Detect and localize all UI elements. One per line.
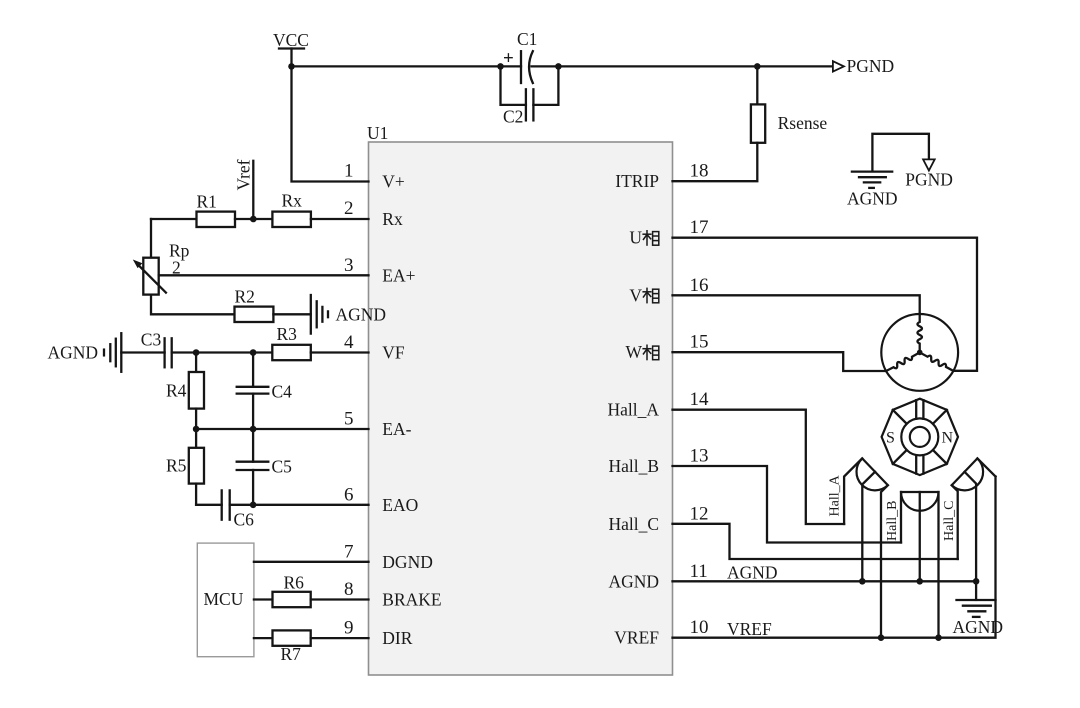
- svg-text:AGND: AGND: [847, 189, 898, 209]
- ground AGND bottom right: [953, 581, 1004, 637]
- svg-text:9: 9: [344, 618, 354, 639]
- wire R5 to C6: [196, 504, 222, 506]
- wire R2 to ground: [273, 313, 310, 315]
- wire Rp bottom to R2: [151, 295, 235, 315]
- svg-text:DGND: DGND: [382, 552, 433, 572]
- wire Rsense to pin 18 ITRIP: [673, 143, 758, 181]
- wire top rail VCC to C1: [292, 65, 522, 67]
- svg-text:PGND: PGND: [905, 170, 953, 190]
- svg-text:R1: R1: [197, 192, 217, 212]
- hall sensor Hall_A: [828, 458, 888, 637]
- capacitor C2: [503, 89, 533, 126]
- ground AGND-PGND tie: [847, 134, 953, 209]
- svg-text:10: 10: [690, 617, 709, 638]
- resistor R6: [273, 573, 311, 608]
- node Hall_A vref junction: [878, 634, 885, 641]
- node R4 bottom junction: [193, 426, 200, 433]
- svg-text:R6: R6: [284, 573, 305, 593]
- wire pin 13 Hall_B signal: [673, 466, 902, 543]
- resistor R7: [273, 630, 311, 664]
- svg-text:S: S: [886, 430, 895, 447]
- wire pin 5 EA-: [196, 428, 368, 430]
- wire pin 7 DGND: [254, 561, 369, 563]
- svg-text:MCU: MCU: [204, 589, 244, 609]
- svg-text:AGND: AGND: [336, 305, 387, 325]
- svg-text:15: 15: [690, 332, 709, 353]
- ground AGND at R2: [311, 295, 386, 334]
- svg-text:R3: R3: [277, 324, 298, 344]
- svg-text:AGND: AGND: [727, 563, 778, 583]
- svg-text:AGND: AGND: [953, 617, 1004, 637]
- svg-text:12: 12: [690, 503, 709, 524]
- wire R7 to pin 9 DIR: [311, 637, 369, 639]
- svg-text:Rx: Rx: [282, 191, 303, 211]
- node Hall_A gnd junction: [859, 578, 866, 585]
- wire Rx to pin 2: [311, 218, 369, 220]
- svg-text:Vref: Vref: [234, 159, 254, 190]
- svg-text:C2: C2: [503, 107, 523, 127]
- svg-text:EAO: EAO: [382, 495, 418, 515]
- node VCC junction: [288, 63, 295, 70]
- svg-text:W: W: [625, 342, 642, 362]
- wire C2 branch left: [501, 66, 526, 105]
- svg-text:+: +: [503, 48, 514, 69]
- svg-text:Hall_A: Hall_A: [828, 474, 843, 516]
- svg-text:18: 18: [690, 161, 709, 182]
- wire C6 to pin 6 EAO: [230, 504, 369, 506]
- svg-text:C1: C1: [517, 29, 537, 49]
- power flag VCC: [273, 30, 309, 66]
- wire pin 10 VREF bus: [673, 477, 996, 638]
- svg-text:U1: U1: [367, 123, 388, 143]
- resistor R5: [166, 429, 204, 505]
- svg-text:V: V: [629, 285, 642, 305]
- node Vref junction: [250, 216, 257, 223]
- svg-text:1: 1: [344, 161, 354, 182]
- potentiometer Rp: [133, 241, 190, 295]
- svg-text:R4: R4: [166, 381, 187, 401]
- node C1 left junction: [497, 63, 504, 70]
- svg-text:VREF: VREF: [727, 619, 772, 639]
- node C5 bottom junction: [250, 502, 257, 509]
- pin label U-phase: [629, 228, 658, 248]
- wire ground to C3: [121, 351, 164, 353]
- capacitor C6: [222, 490, 254, 529]
- svg-text:U: U: [629, 228, 642, 248]
- hall sensor Hall_C: [942, 458, 996, 581]
- svg-text:Rsense: Rsense: [778, 113, 828, 133]
- wire C3 to R3: [172, 351, 273, 353]
- wire R1 to Rx: [235, 218, 272, 220]
- svg-text:PGND: PGND: [847, 56, 895, 76]
- svg-text:7: 7: [344, 541, 354, 562]
- svg-text:Hall_C: Hall_C: [608, 514, 659, 534]
- svg-text:AGND: AGND: [48, 343, 99, 363]
- ground AGND at C3: [48, 333, 122, 372]
- svg-text:5: 5: [344, 409, 354, 430]
- svg-text:Hall_B: Hall_B: [608, 456, 659, 476]
- svg-text:13: 13: [690, 446, 709, 467]
- svg-text:R7: R7: [281, 644, 302, 664]
- svg-text:6: 6: [344, 484, 354, 505]
- svg-text:BRAKE: BRAKE: [382, 590, 441, 610]
- svg-text:Hall_A: Hall_A: [607, 400, 659, 420]
- wire R1 left lead: [151, 218, 197, 220]
- node Rsense top junction: [754, 63, 761, 70]
- pin label W-phase: [625, 342, 658, 362]
- resistor R3: [272, 324, 311, 360]
- MCU block: [197, 543, 254, 657]
- power flag PGND top right: [833, 56, 894, 76]
- svg-text:VF: VF: [382, 343, 405, 363]
- capacitor C5: [237, 429, 292, 505]
- svg-text:14: 14: [690, 389, 710, 410]
- wire top rail C1 to PGND: [532, 65, 833, 67]
- node Hall_B gnd junction: [916, 578, 923, 585]
- svg-text:16: 16: [690, 275, 709, 296]
- node C1 right junction: [555, 63, 562, 70]
- wire pin 17 U-phase to motor: [673, 238, 978, 371]
- wire R6 to pin 8 BRAKE: [311, 598, 369, 600]
- capacitor C1: [503, 29, 537, 83]
- node Hall_B vref junction: [935, 634, 942, 641]
- node C4 bottom junction: [250, 426, 257, 433]
- wire pin 14 Hall_A signal: [673, 410, 845, 524]
- pin label V-phase: [629, 285, 658, 305]
- wire MCU to R6: [254, 598, 273, 600]
- wire C2 branch right: [533, 66, 558, 105]
- svg-text:3: 3: [344, 255, 354, 276]
- svg-text:VREF: VREF: [614, 628, 659, 648]
- wire pin 11 AGND bus: [673, 580, 977, 582]
- hall sensor Hall_B: [885, 492, 939, 638]
- svg-text:R5: R5: [166, 456, 187, 476]
- svg-text:2: 2: [344, 198, 354, 219]
- node Hall_C gnd junction: [973, 578, 980, 585]
- capacitor C3: [141, 329, 172, 367]
- motor M windings: [881, 314, 958, 391]
- resistor Rsense: [751, 66, 828, 142]
- IC U1 body: [367, 123, 673, 675]
- resistor R2: [235, 287, 274, 323]
- resistor R4: [166, 353, 204, 430]
- node C4 top junction: [250, 349, 257, 356]
- wire MCU to R7: [254, 637, 273, 639]
- rotor magnet S-N: [882, 399, 958, 475]
- svg-text:R2: R2: [235, 287, 255, 307]
- svg-text:C3: C3: [141, 329, 162, 349]
- svg-text:EA+: EA+: [382, 265, 415, 285]
- svg-text:AGND: AGND: [608, 571, 659, 591]
- wire pin 16 V-phase to motor: [673, 295, 920, 314]
- svg-text:C5: C5: [272, 457, 293, 477]
- wire pin 12 Hall_C signal: [673, 524, 958, 559]
- svg-text:11: 11: [690, 561, 708, 582]
- svg-text:ITRIP: ITRIP: [615, 171, 659, 191]
- wire R1 down to Rp: [150, 219, 152, 258]
- svg-text:4: 4: [344, 332, 354, 353]
- svg-text:Rx: Rx: [382, 209, 403, 229]
- wire pin 15 W-phase to motor: [673, 352, 887, 371]
- resistor Rx: [272, 191, 311, 228]
- svg-text:EA-: EA-: [382, 419, 411, 439]
- svg-text:8: 8: [344, 579, 354, 600]
- svg-text:Hall_B: Hall_B: [885, 501, 900, 541]
- wire R3 to pin 4: [311, 351, 369, 353]
- capacitor C4: [237, 353, 292, 430]
- svg-text:C6: C6: [234, 510, 255, 530]
- resistor R1: [197, 192, 236, 228]
- wire Rp wiper to pin 3: [159, 274, 369, 276]
- wire VCC rail to pin 1: [292, 66, 369, 181]
- svg-text:DIR: DIR: [382, 628, 412, 648]
- svg-text:C4: C4: [272, 382, 293, 402]
- svg-text:17: 17: [690, 217, 709, 238]
- svg-text:VCC: VCC: [273, 30, 309, 50]
- svg-text:V+: V+: [382, 172, 405, 192]
- svg-text:N: N: [942, 430, 954, 447]
- svg-text:Hall_C: Hall_C: [942, 501, 957, 541]
- net label Vref: [234, 159, 254, 219]
- node R4 top junction: [193, 349, 200, 356]
